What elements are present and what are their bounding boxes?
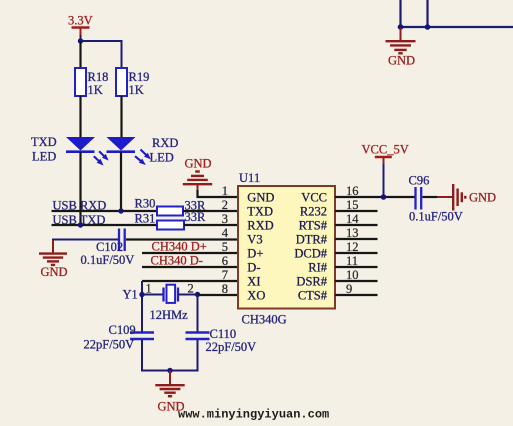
node top right junction 2 <box>425 24 431 30</box>
svg-text:XO: XO <box>247 289 265 303</box>
power 3.3V label <box>68 14 93 28</box>
node crystal right junction <box>195 292 200 297</box>
svg-text:0.1uF/50V: 0.1uF/50V <box>81 253 135 267</box>
svg-text:3: 3 <box>222 212 228 226</box>
svg-text:RXD: RXD <box>247 219 273 233</box>
pin names right <box>294 191 327 303</box>
pin numbers right 16-9 <box>346 184 359 296</box>
svg-text:C110: C110 <box>210 327 237 341</box>
svg-text:1: 1 <box>222 184 228 198</box>
svg-text:TXD: TXD <box>247 205 273 219</box>
node 3.3V junction <box>78 38 83 43</box>
svg-text:6: 6 <box>222 254 228 268</box>
crystal Y1 <box>123 282 194 323</box>
pin names left <box>247 191 274 303</box>
capacitor C110 <box>186 327 257 354</box>
svg-text:CH340G: CH340G <box>242 313 287 327</box>
resistor R30 33R <box>135 197 207 216</box>
wire junction down to R18 <box>79 41 81 68</box>
node LED1 junction <box>78 222 83 227</box>
power VCC_5V <box>362 143 409 166</box>
svg-text:D+: D+ <box>247 247 263 261</box>
svg-text:TXD: TXD <box>31 135 57 149</box>
wire USB TXD to R31 <box>52 224 158 226</box>
capacitor C96 <box>409 174 463 224</box>
wire pin14 <box>335 224 378 226</box>
svg-text:R19: R19 <box>129 70 150 84</box>
svg-text:GND: GND <box>41 265 68 279</box>
capacitor C102 <box>81 229 135 268</box>
node LED2 junction <box>118 208 123 213</box>
label RXD LED <box>150 136 179 165</box>
svg-text:1K: 1K <box>88 83 103 97</box>
node bottom GND junction <box>167 368 172 373</box>
wire pin6 <box>142 266 238 268</box>
node VCC junction <box>381 194 387 200</box>
node crystal left junction <box>139 292 144 297</box>
wire junction to R19 branch <box>81 41 122 68</box>
svg-text:CTS#: CTS# <box>298 289 328 303</box>
wire C102 to pin4 <box>126 238 238 240</box>
svg-text:R31: R31 <box>135 212 156 226</box>
svg-text:RTS#: RTS# <box>299 219 328 233</box>
net label CH340 D- <box>151 254 203 268</box>
wire pin13 <box>335 238 378 240</box>
wire pin1 GND to IC <box>198 190 239 197</box>
svg-text:U11: U11 <box>239 171 260 185</box>
svg-text:R18: R18 <box>88 70 109 84</box>
wire R18 to LED1 <box>79 96 81 137</box>
svg-text:2: 2 <box>188 282 194 296</box>
resistor R31 33R <box>135 210 207 230</box>
svg-text:LED: LED <box>150 151 174 165</box>
ground pin1 GND inverted <box>183 157 212 193</box>
svg-text:GND: GND <box>247 191 274 205</box>
wire pin7 XI <box>142 280 238 282</box>
svg-text:GND: GND <box>388 54 415 68</box>
svg-text:D-: D- <box>247 261 260 275</box>
wire pin9 <box>335 294 378 296</box>
node top right junction 1 <box>398 24 404 30</box>
svg-text:C96: C96 <box>409 174 430 188</box>
svg-text:Y1: Y1 <box>123 288 138 302</box>
svg-text:DTR#: DTR# <box>296 233 328 247</box>
svg-text:0.1uF/50V: 0.1uF/50V <box>409 210 463 224</box>
svg-text:VCC_5V: VCC_5V <box>362 143 409 157</box>
net label USB RXD <box>53 199 107 213</box>
resistor R18 <box>75 68 108 97</box>
svg-text:R30: R30 <box>135 197 156 211</box>
power 3.3V bar <box>72 28 90 36</box>
svg-text:RI#: RI# <box>308 261 328 275</box>
wire pin11 <box>335 266 378 268</box>
wire top right vertical 2 <box>426 0 428 27</box>
wire pin15 <box>335 210 378 212</box>
svg-text:C102: C102 <box>96 240 123 254</box>
ground top right GND <box>386 28 416 68</box>
wire pin5 <box>142 252 238 254</box>
wire crystal right down to C110 <box>197 295 199 332</box>
wire R30 to pin2 <box>183 210 238 212</box>
wire R31 to pin3 <box>184 224 238 226</box>
wire VCC stub <box>383 164 385 197</box>
wire crystal right lead <box>179 294 198 296</box>
net label CH340 D+ <box>152 240 207 254</box>
svg-text:CH340 D-: CH340 D- <box>151 254 203 268</box>
wire pin10 <box>335 280 378 282</box>
label TXD LED <box>31 135 57 164</box>
svg-text:GND: GND <box>185 157 212 171</box>
svg-text:DCD#: DCD# <box>294 247 327 261</box>
svg-text:5: 5 <box>222 240 228 254</box>
wire R19 to LED2 <box>120 96 122 137</box>
wire pin8 XO <box>198 294 239 296</box>
ground right rotated GND <box>453 184 496 211</box>
op-amp U11 CH340G IC body <box>238 171 335 327</box>
svg-text:1: 1 <box>146 282 152 296</box>
pin numbers left 1-8 <box>222 184 229 296</box>
svg-text:4: 4 <box>222 226 229 240</box>
wire USB RXD to R30 <box>52 210 158 212</box>
watermark <box>178 408 329 422</box>
wire pin7 down to crystal <box>141 281 143 332</box>
svg-text:LED: LED <box>32 150 56 164</box>
wire crystal left lead <box>142 294 163 296</box>
wire top right horizontal <box>401 26 513 28</box>
svg-text:V3: V3 <box>247 233 262 247</box>
svg-text:www.minyingyiyuan.com: www.minyingyiyuan.com <box>178 408 329 422</box>
svg-text:7: 7 <box>222 268 228 282</box>
LED RXD D? <box>107 137 151 165</box>
svg-text:GND: GND <box>469 191 496 205</box>
svg-text:VCC: VCC <box>301 191 327 205</box>
capacitor C109 <box>84 323 155 352</box>
svg-text:22pF/50V: 22pF/50V <box>206 340 257 354</box>
wire top right vertical 1 <box>399 0 401 27</box>
ground bottom GND <box>155 371 184 414</box>
wire pin12 <box>335 252 378 254</box>
svg-text:RXD: RXD <box>152 136 178 150</box>
LED TXD D? <box>66 137 109 166</box>
net label USB TXD <box>53 213 106 227</box>
wire C102 left segment <box>53 240 118 253</box>
svg-text:1K: 1K <box>129 83 144 97</box>
wire 3.3V to junction <box>80 35 82 42</box>
wire C96 to GND <box>423 196 453 198</box>
svg-text:2: 2 <box>222 198 228 212</box>
svg-text:33R: 33R <box>185 210 207 224</box>
svg-text:C109: C109 <box>109 323 136 337</box>
wire C109 bottom loop <box>142 340 198 371</box>
svg-text:3.3V: 3.3V <box>68 14 93 28</box>
resistor R19 <box>116 68 149 97</box>
svg-text:12HMz: 12HMz <box>150 308 189 322</box>
wire LED1 down to USB TXD row <box>79 152 81 225</box>
wire pin16 VCC <box>335 196 415 198</box>
svg-text:CH340 D+: CH340 D+ <box>152 240 207 254</box>
svg-text:R232: R232 <box>300 205 327 219</box>
svg-text:XI: XI <box>247 275 260 289</box>
ground left GND <box>39 240 68 279</box>
svg-text:DSR#: DSR# <box>296 275 327 289</box>
svg-text:22pF/50V: 22pF/50V <box>84 338 135 352</box>
svg-text:8: 8 <box>222 282 228 296</box>
wire LED2 down to USB RXD row <box>120 152 122 211</box>
